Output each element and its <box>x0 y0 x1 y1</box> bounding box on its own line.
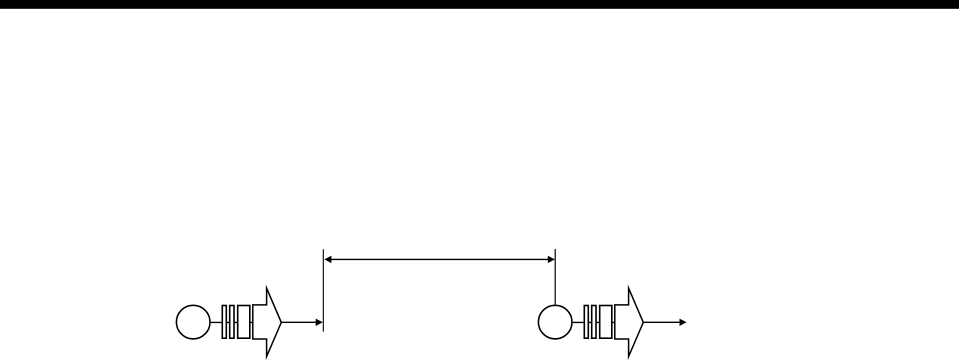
arrowhead flow 2 <box>680 319 687 326</box>
wire circle2 to arrow2 <box>573 321 615 323</box>
block arrow 1 <box>253 288 281 356</box>
tick line (left extension) <box>322 249 324 332</box>
circle (source 1) <box>176 305 210 339</box>
wire circle1 to arrow1 <box>211 321 253 323</box>
queue1 bar 1 <box>222 306 226 339</box>
block arrow 2 <box>615 288 644 356</box>
dimension line <box>331 258 549 260</box>
queue1 bar 3 <box>238 306 250 339</box>
header bar <box>0 0 959 9</box>
queue2 bar 1 <box>584 306 588 339</box>
wire flow line 2 <box>644 321 681 323</box>
arrowhead flow 1 <box>316 319 323 326</box>
circle (source 2) <box>538 305 572 339</box>
queue1 bar 2 <box>230 306 234 339</box>
queue2 bar 2 <box>592 306 596 339</box>
wire flow line 1 <box>282 321 317 323</box>
queue2 bar 3 <box>600 306 612 339</box>
arrowhead dimension left <box>324 256 331 263</box>
arrowhead dimension right <box>548 256 555 263</box>
right extension line <box>554 249 556 305</box>
